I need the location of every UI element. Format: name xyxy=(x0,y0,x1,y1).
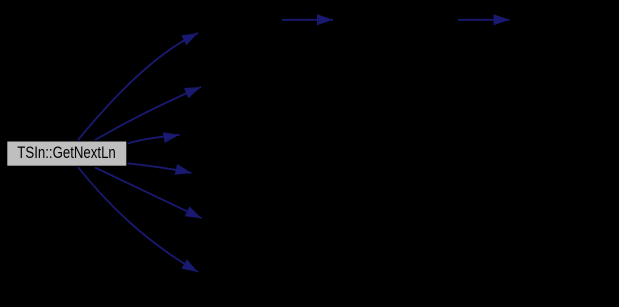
wire edge3 slight up xyxy=(127,135,180,144)
arrowhead edge7 xyxy=(317,14,333,25)
arrowhead edge4 xyxy=(175,164,192,175)
svg-text:TSIn::GetNextLn: TSIn::GetNextLn xyxy=(17,143,116,162)
wire edge2 moderate up xyxy=(95,87,201,140)
arrowhead edge5 xyxy=(185,206,202,218)
node TSIn::GetNextLn xyxy=(7,141,127,167)
wire edge5 moderate down xyxy=(95,168,202,219)
arrowhead edge3 xyxy=(163,132,180,143)
wire edge8 horizontal top-right xyxy=(458,19,510,21)
arrowhead edge1 xyxy=(181,33,198,45)
wire edge4 slight down xyxy=(127,163,192,173)
arrowhead edge2 xyxy=(184,87,201,98)
wire edge6 steep down xyxy=(78,167,198,272)
arrowhead edge8 xyxy=(494,14,510,25)
wire edge1 curve steep up xyxy=(78,33,198,140)
wire edge7 horizontal top-left xyxy=(282,19,333,21)
arrowhead edge6 xyxy=(181,259,198,272)
